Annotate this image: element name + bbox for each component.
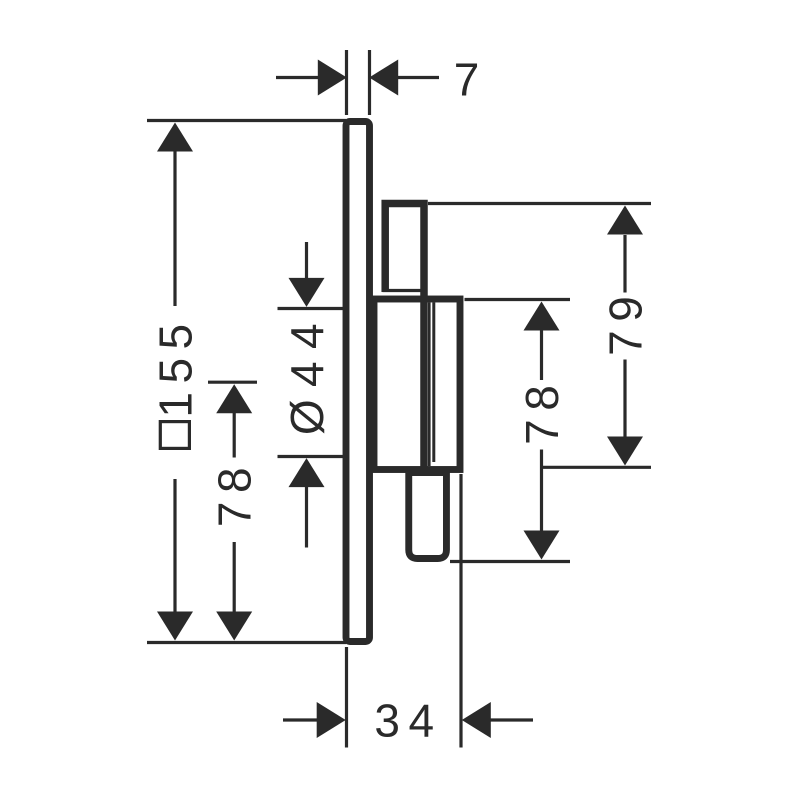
svg-text:78: 78 <box>209 459 261 527</box>
svg-text:155: 155 <box>150 315 202 417</box>
svg-text:Ø44: Ø44 <box>281 311 333 435</box>
svg-text:34: 34 <box>374 695 442 747</box>
svg-text:79: 79 <box>600 288 652 356</box>
svg-text:78: 78 <box>516 377 568 445</box>
svg-text:7: 7 <box>454 54 480 106</box>
